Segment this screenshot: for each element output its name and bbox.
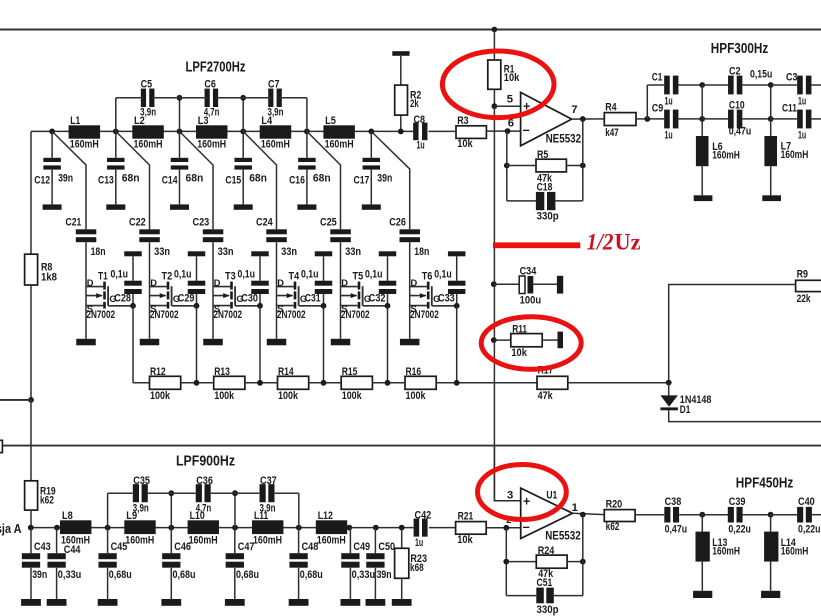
node red circle R11 bbox=[481, 317, 581, 370]
wire bridge C6-C7 bbox=[216, 97, 271, 99]
capacitor C1 1u bbox=[652, 72, 679, 108]
capacitor C13 68n bbox=[98, 158, 140, 187]
wire riser to C1 bbox=[646, 85, 648, 119]
svg-text:2N7002: 2N7002 bbox=[213, 309, 242, 321]
resistor R15 100k bbox=[341, 366, 372, 402]
node hpf450 junction bbox=[768, 512, 774, 518]
ground C47 bbox=[225, 599, 245, 606]
svg-text:C34: C34 bbox=[520, 265, 537, 277]
ground L13 bbox=[693, 591, 712, 598]
svg-text:160mH: 160mH bbox=[197, 138, 226, 150]
wire gate chain segment bbox=[309, 382, 342, 384]
node LPF900 rail junction bbox=[28, 525, 34, 531]
svg-text:+: + bbox=[523, 495, 530, 509]
wire gate chain start bbox=[133, 382, 150, 384]
ground T3 source bbox=[203, 339, 223, 346]
wire bridge riser right bbox=[298, 493, 300, 527]
capacitor C10 0,47u bbox=[728, 99, 751, 137]
wire hpf450 s4 bbox=[771, 514, 798, 516]
svg-text:2k: 2k bbox=[410, 98, 419, 110]
svg-text:68n: 68n bbox=[186, 172, 204, 184]
wire T3 drain-source rail bbox=[212, 242, 214, 339]
node red circle pin3 bbox=[478, 465, 567, 520]
node rail junction 5 bbox=[304, 129, 310, 135]
node hpf450 junction bbox=[699, 512, 705, 518]
node T1 gate junction bbox=[130, 303, 136, 309]
svg-text:D: D bbox=[214, 278, 221, 288]
svg-text:C12: C12 bbox=[34, 174, 50, 186]
resistor R13 100k bbox=[214, 366, 245, 402]
wire C44 top lead bbox=[56, 528, 58, 554]
svg-text:1u: 1u bbox=[665, 130, 673, 142]
svg-text:1: 1 bbox=[572, 502, 578, 514]
inductor L12 160mH bbox=[316, 510, 347, 546]
svg-text:C15: C15 bbox=[225, 174, 241, 186]
svg-text:R15: R15 bbox=[342, 366, 358, 378]
node feedback left bbox=[504, 163, 510, 169]
wire pin5 lead bbox=[494, 105, 520, 107]
svg-text:160mH: 160mH bbox=[261, 138, 290, 150]
node gate chain junction bbox=[454, 380, 460, 386]
svg-text:100u: 100u bbox=[520, 295, 542, 307]
wire C18 left lead bbox=[507, 200, 536, 202]
node gate chain junction bbox=[321, 380, 327, 386]
svg-text:T3: T3 bbox=[225, 271, 236, 283]
wire C17 bottom lead bbox=[370, 170, 372, 205]
svg-text:33n: 33n bbox=[345, 246, 361, 258]
wire diagonal tap 3 bbox=[180, 131, 214, 229]
svg-text:C48: C48 bbox=[302, 541, 319, 553]
svg-text:0,68u: 0,68u bbox=[300, 569, 323, 581]
inductor L13 160mH bbox=[696, 532, 741, 562]
wire C47 bottom lead bbox=[234, 568, 236, 599]
wire C17 top lead bbox=[370, 131, 372, 157]
svg-text:C21: C21 bbox=[66, 217, 82, 229]
resistor R23 k68 bbox=[395, 548, 427, 578]
transistor T2 2N7002 bbox=[150, 271, 181, 321]
svg-text:T4: T4 bbox=[289, 271, 300, 283]
ground T4 source bbox=[267, 339, 287, 346]
wire C12 top lead bbox=[51, 131, 53, 157]
capacitor C33 0,1u bbox=[434, 269, 465, 305]
svg-text:0,1u: 0,1u bbox=[111, 269, 129, 281]
wire pin2 feedback down bbox=[505, 528, 507, 596]
wire lower input line bbox=[2, 445, 821, 447]
svg-text:4,7n: 4,7n bbox=[196, 503, 212, 515]
wire C15 bottom lead bbox=[242, 170, 244, 205]
svg-text:C28: C28 bbox=[114, 293, 131, 305]
node hpf junction bbox=[768, 82, 774, 88]
node bridge junction bbox=[232, 490, 238, 496]
svg-text:22k: 22k bbox=[797, 293, 812, 305]
wire C45 bottom lead bbox=[107, 568, 109, 599]
label pin 2 bbox=[506, 515, 511, 526]
node rail junction 2 bbox=[113, 129, 119, 135]
wire R24 to riser bbox=[567, 561, 583, 563]
ground C12 bbox=[43, 204, 62, 209]
capacitor C21 18n bbox=[66, 217, 106, 259]
svg-text:160mH: 160mH bbox=[253, 534, 282, 546]
wire C29 top lead bbox=[196, 256, 198, 280]
wire hpf b4 bbox=[771, 118, 798, 120]
svg-text:C6: C6 bbox=[204, 78, 216, 90]
wire T3 gate bbox=[235, 305, 260, 307]
wire hpf450 s5 bbox=[812, 514, 821, 516]
svg-text:−: − bbox=[523, 520, 530, 534]
capacitor C42 1u bbox=[414, 509, 432, 549]
wire to C1 bbox=[647, 84, 664, 86]
wire C48 bottom lead bbox=[298, 568, 300, 599]
wire gate node down T3 bbox=[259, 306, 261, 383]
power bar R2 top bbox=[392, 51, 409, 56]
transistor T3 2N7002 bbox=[213, 271, 244, 321]
inductor L6 160mH bbox=[696, 136, 740, 166]
wire C45 top lead bbox=[107, 528, 109, 554]
resistor R21 10k bbox=[456, 511, 487, 546]
node rail junction 6 bbox=[368, 129, 374, 135]
svg-text:D: D bbox=[341, 278, 348, 288]
wire T1 drain-source rail bbox=[85, 242, 87, 339]
node LPF900 rail junction bbox=[296, 525, 302, 531]
svg-text:100k: 100k bbox=[150, 390, 171, 402]
svg-text:0,68u: 0,68u bbox=[236, 569, 259, 581]
svg-text:LPF900Hz: LPF900Hz bbox=[176, 453, 235, 469]
svg-text:R5: R5 bbox=[537, 149, 548, 161]
svg-text:160mH: 160mH bbox=[712, 545, 740, 557]
resistor R1 10k bbox=[488, 60, 520, 89]
capacitor C6 4,7n bbox=[204, 78, 220, 118]
svg-text:3,9n: 3,9n bbox=[268, 106, 284, 118]
wire R23 bottom lead bbox=[401, 578, 403, 599]
svg-text:10k: 10k bbox=[457, 138, 473, 150]
capacitor C12 39n bbox=[34, 158, 73, 187]
wire L14 link bbox=[770, 515, 772, 532]
label LPF900Hz bbox=[176, 453, 235, 469]
resistor R2 2k bbox=[395, 85, 422, 115]
svg-text:0,1u: 0,1u bbox=[174, 269, 192, 281]
svg-text:1u: 1u bbox=[665, 95, 673, 107]
wire L14 bottom lead bbox=[770, 562, 772, 591]
wire pin3 lead bbox=[494, 446, 520, 501]
ground C50 bbox=[366, 599, 386, 606]
wire diagonal tap 6 bbox=[371, 131, 409, 229]
wire bridge b3 bbox=[211, 492, 259, 494]
wire to R24 bbox=[506, 561, 536, 563]
capacitor C28 0,1u bbox=[111, 269, 142, 305]
wire C14 top lead bbox=[179, 131, 181, 157]
svg-text:1/2: 1/2 bbox=[587, 230, 614, 255]
wire input stub bbox=[0, 399, 31, 401]
svg-text:10k: 10k bbox=[511, 347, 527, 359]
wire R11 right lead bbox=[542, 339, 557, 341]
wire bridge riser bbox=[242, 98, 244, 132]
capacitor C38 0,47u bbox=[664, 496, 687, 536]
inductor L14 160mH bbox=[764, 532, 808, 562]
capacitor C36 4,7n bbox=[196, 475, 213, 514]
svg-text:−: − bbox=[523, 124, 530, 138]
wire C46 bottom lead bbox=[170, 568, 172, 599]
node LPF900 rail junction bbox=[346, 525, 352, 531]
wire R1 to pin5 node bbox=[493, 89, 495, 106]
svg-text:C31: C31 bbox=[305, 293, 321, 305]
wire T5 gate bbox=[363, 305, 388, 307]
svg-text:NE5532: NE5532 bbox=[546, 132, 582, 146]
inductor L7 160mH bbox=[764, 136, 808, 166]
wire R9 horizontal bbox=[669, 285, 796, 383]
svg-text:0,1u: 0,1u bbox=[301, 269, 319, 281]
power bar C34 return bbox=[557, 276, 563, 294]
wire R17 to diode node bbox=[568, 382, 669, 384]
wire hpf450 s2 bbox=[702, 514, 728, 516]
node diode junction bbox=[666, 380, 672, 386]
node LPF900 rail junction bbox=[105, 525, 111, 531]
wire C34 right lead bbox=[533, 283, 557, 285]
capacitor C7 3,9n bbox=[268, 78, 284, 118]
inductor L5 160mH bbox=[323, 115, 355, 150]
wire C33 top lead bbox=[456, 256, 458, 280]
wire T4 gate bbox=[299, 305, 324, 307]
svg-text:2N7002: 2N7002 bbox=[341, 309, 370, 321]
svg-text:2N7002: 2N7002 bbox=[150, 309, 179, 321]
label LPF2700Hz bbox=[186, 60, 246, 76]
node hpf junction bbox=[768, 116, 774, 122]
svg-text:C50: C50 bbox=[378, 541, 395, 553]
wire C46 top lead bbox=[170, 528, 172, 554]
diode D1 1N4148 bbox=[660, 394, 711, 416]
svg-text:LPF2700Hz: LPF2700Hz bbox=[186, 60, 246, 76]
wire C51 left lead bbox=[506, 595, 536, 597]
wire hpf b1 bbox=[679, 118, 703, 120]
svg-text:C2: C2 bbox=[729, 66, 741, 78]
svg-text:R13: R13 bbox=[214, 366, 230, 378]
svg-text:R14: R14 bbox=[278, 366, 294, 378]
wire C15 top lead bbox=[242, 131, 244, 157]
node output2 junction bbox=[580, 512, 586, 518]
svg-text:C36: C36 bbox=[196, 475, 213, 487]
ground C15 bbox=[234, 204, 253, 209]
capacitor C26 18n bbox=[389, 217, 429, 259]
node T3 gate junction bbox=[257, 303, 263, 309]
wire output feedback down bbox=[582, 119, 584, 201]
wire LPF2700 input rail bbox=[31, 130, 413, 132]
svg-text:0,1u: 0,1u bbox=[434, 269, 452, 281]
wire output2 feedback down bbox=[582, 515, 584, 596]
capacitor C22 33n bbox=[129, 217, 170, 259]
capacitor C37 3,9n bbox=[260, 475, 277, 514]
node R4 output corner bbox=[644, 116, 650, 122]
node T6 gate junction bbox=[454, 303, 460, 309]
wire pin6 feedback down bbox=[506, 131, 508, 201]
svg-text:C14: C14 bbox=[162, 174, 178, 186]
capacitor C46 0,68u bbox=[162, 541, 195, 581]
label HPF300Hz bbox=[711, 41, 769, 57]
wire C8 to R3 bbox=[429, 130, 457, 132]
capacitor C9 1u bbox=[652, 102, 679, 141]
resistor R11 10k bbox=[511, 324, 542, 360]
capacitor C24 33n bbox=[256, 217, 297, 259]
svg-text:C10: C10 bbox=[729, 99, 745, 111]
ground C17 bbox=[362, 204, 381, 209]
inductor L4 160mH bbox=[260, 115, 292, 150]
node LPF900 rail junction bbox=[373, 525, 379, 531]
svg-text:R3: R3 bbox=[457, 115, 468, 127]
svg-text:D1: D1 bbox=[680, 404, 691, 416]
wire bridge b4 bbox=[275, 492, 299, 494]
svg-text:Wersja A: Wersja A bbox=[0, 521, 22, 536]
svg-text:68n: 68n bbox=[249, 172, 267, 184]
capacitor C50 39n bbox=[366, 541, 395, 581]
capacitor C14 68n bbox=[162, 158, 204, 187]
resistor R24 47k bbox=[536, 545, 567, 580]
node output junction bbox=[580, 116, 586, 122]
wire hpf a1 bbox=[679, 84, 703, 86]
node rail junction 3 bbox=[177, 129, 183, 135]
svg-text:160mH: 160mH bbox=[125, 534, 154, 546]
capacitor C23 33n bbox=[193, 217, 234, 259]
svg-text:R11: R11 bbox=[512, 324, 527, 336]
capacitor C48 0,68u bbox=[289, 541, 322, 581]
svg-text:47k: 47k bbox=[538, 390, 554, 402]
wire hpf a3 bbox=[742, 84, 771, 86]
wire C12 bottom lead bbox=[51, 170, 53, 205]
svg-text:C43: C43 bbox=[34, 541, 51, 553]
node supply tap bbox=[492, 27, 498, 33]
svg-text:L8: L8 bbox=[62, 510, 73, 522]
wire gate node down T5 bbox=[387, 306, 389, 383]
wire input node to R19 bbox=[30, 400, 32, 481]
node hpf junction bbox=[699, 116, 705, 122]
svg-text:160mH: 160mH bbox=[781, 149, 809, 161]
wire to R5 bbox=[507, 165, 536, 167]
wire C48 top lead bbox=[298, 528, 300, 554]
wire left branch vertical bbox=[30, 131, 32, 254]
svg-text:0,47u: 0,47u bbox=[665, 524, 688, 536]
svg-text:3,9n: 3,9n bbox=[140, 106, 156, 118]
node rail junction 4 bbox=[240, 129, 246, 135]
wire gate node down T6 bbox=[456, 306, 458, 383]
wire C18 right lead bbox=[555, 200, 582, 202]
svg-text:330p: 330p bbox=[537, 604, 559, 616]
wire bridge C7 right bbox=[279, 97, 307, 99]
wire C42 to R21 bbox=[429, 527, 456, 529]
capacitor C31 0,1u bbox=[301, 269, 332, 305]
wire gate chain segment bbox=[436, 382, 537, 384]
wire gate node down T1 bbox=[132, 306, 134, 383]
wire C16 top lead bbox=[306, 131, 308, 157]
svg-text:L5: L5 bbox=[325, 115, 336, 127]
wire T2 gate bbox=[172, 305, 197, 307]
capacitor C3 1u bbox=[786, 72, 811, 108]
svg-text:10k: 10k bbox=[457, 534, 473, 546]
op-amp U1 NE5532 bbox=[521, 488, 581, 543]
svg-text:HPF450Hz: HPF450Hz bbox=[736, 475, 794, 491]
svg-text:C18: C18 bbox=[537, 181, 553, 193]
svg-text:R16: R16 bbox=[406, 366, 422, 378]
wire C16 bottom lead bbox=[306, 170, 308, 205]
capacitor C40 0,22u bbox=[797, 496, 820, 536]
svg-text:160mH: 160mH bbox=[189, 534, 218, 546]
capacitor C39 0,22u bbox=[728, 496, 751, 536]
wire L13 bottom lead bbox=[701, 562, 703, 591]
svg-text:D: D bbox=[277, 278, 284, 288]
svg-text:C25: C25 bbox=[320, 217, 337, 229]
svg-text:C45: C45 bbox=[111, 541, 128, 553]
wire C47 top lead bbox=[234, 528, 236, 554]
wire diode cathode to right bbox=[669, 410, 821, 421]
wire bridge C5 left bbox=[116, 97, 144, 99]
svg-text:1u: 1u bbox=[417, 140, 425, 152]
svg-text:C7: C7 bbox=[268, 78, 280, 90]
resistor R20 k62 bbox=[604, 498, 635, 533]
svg-text:C40: C40 bbox=[798, 496, 815, 508]
svg-text:T2: T2 bbox=[162, 271, 173, 283]
svg-text:k68: k68 bbox=[410, 562, 424, 574]
svg-text:C13: C13 bbox=[98, 174, 114, 186]
svg-text:3,9n: 3,9n bbox=[133, 503, 149, 515]
wire T5 drain-source rail bbox=[340, 242, 342, 339]
capacitor C8 1u bbox=[413, 114, 427, 151]
wire bridge riser bbox=[179, 98, 181, 132]
node hpf junction bbox=[699, 82, 705, 88]
wire gate chain segment bbox=[245, 382, 278, 384]
svg-text:0,33u: 0,33u bbox=[58, 569, 82, 581]
wire C30 bottom lead bbox=[259, 294, 261, 306]
svg-text:C39: C39 bbox=[729, 496, 746, 508]
wire R21 to pin2 bbox=[486, 527, 521, 529]
wire C32 bottom lead bbox=[387, 294, 389, 306]
svg-text:0,22u: 0,22u bbox=[798, 524, 821, 536]
svg-text:3: 3 bbox=[507, 489, 513, 501]
inductor L10 160mH bbox=[188, 510, 219, 546]
svg-text:100k: 100k bbox=[214, 390, 235, 402]
node input connector bbox=[0, 440, 2, 452]
wire L13 link bbox=[701, 515, 703, 532]
power bar C31 top bbox=[315, 251, 333, 256]
wire T6 drain-source rail bbox=[409, 242, 411, 339]
ground C43 bbox=[21, 599, 41, 606]
capacitor C15 68n bbox=[225, 158, 267, 187]
wire half-rail vertical lower2 bbox=[493, 340, 495, 501]
svg-text:0,15u: 0,15u bbox=[750, 68, 772, 80]
svg-text:U1: U1 bbox=[546, 489, 557, 501]
svg-text:R12: R12 bbox=[150, 366, 166, 378]
ground L7 bbox=[762, 195, 781, 201]
svg-text:D: D bbox=[87, 278, 94, 288]
svg-text:33n: 33n bbox=[154, 246, 170, 258]
wire C31 bottom lead bbox=[323, 294, 325, 306]
wire hpf a5 bbox=[812, 84, 821, 86]
ground C48 bbox=[289, 599, 309, 606]
inductor L11 160mH bbox=[252, 510, 283, 546]
wire C44 bottom lead bbox=[56, 568, 58, 599]
transistor T1 2N7002 bbox=[86, 271, 117, 321]
svg-text:R20: R20 bbox=[606, 498, 623, 510]
wire R2 bottom lead bbox=[400, 115, 402, 131]
ground C16 bbox=[297, 204, 316, 209]
wire L7 link bbox=[770, 85, 772, 136]
resistor R4 k47 bbox=[604, 102, 636, 140]
wire C29 bottom lead bbox=[196, 294, 198, 306]
svg-text:0,47u: 0,47u bbox=[729, 125, 752, 137]
power bar C32 top bbox=[379, 251, 397, 256]
label Wersja A bbox=[0, 521, 22, 536]
wire C43 top lead bbox=[30, 528, 32, 554]
svg-text:Uz: Uz bbox=[615, 230, 641, 255]
svg-text:C26: C26 bbox=[389, 217, 406, 229]
svg-text:C46: C46 bbox=[174, 541, 191, 553]
wire C14 bottom lead bbox=[179, 170, 181, 205]
svg-text:39n: 39n bbox=[377, 172, 392, 184]
